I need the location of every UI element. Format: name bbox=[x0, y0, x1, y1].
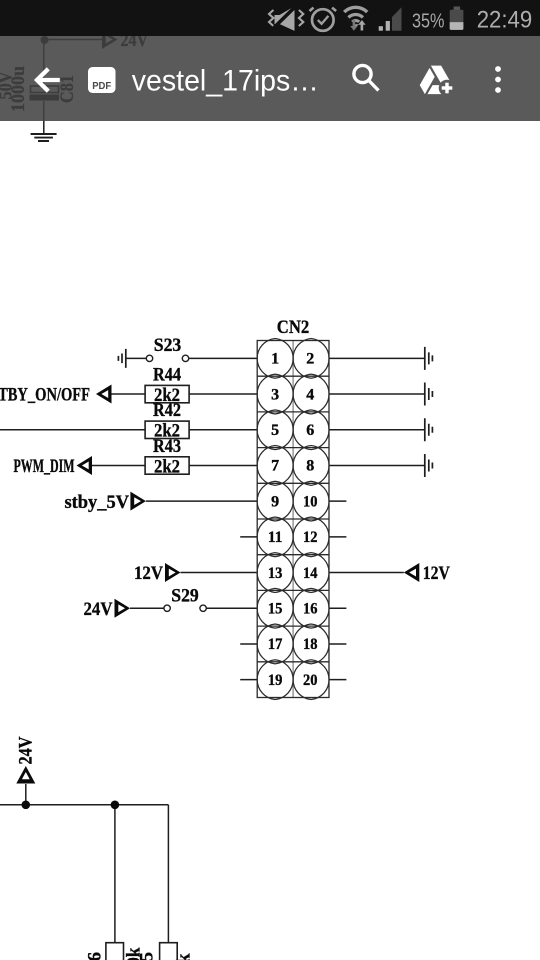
svg-text:13: 13 bbox=[268, 565, 283, 582]
svg-text:3: 3 bbox=[271, 386, 279, 403]
svg-text:S29: S29 bbox=[171, 585, 199, 606]
svg-text:R43: R43 bbox=[153, 436, 181, 457]
svg-text:14: 14 bbox=[303, 565, 318, 582]
svg-text:17: 17 bbox=[268, 636, 283, 653]
svg-text:2k2: 2k2 bbox=[154, 456, 180, 477]
svg-text:R44: R44 bbox=[153, 365, 181, 386]
svg-text:PWM_DIM: PWM_DIM bbox=[14, 456, 75, 477]
svg-text:16: 16 bbox=[303, 600, 318, 617]
svg-text:stby_5V: stby_5V bbox=[65, 492, 130, 513]
svg-text:18: 18 bbox=[303, 636, 318, 653]
svg-text:15: 15 bbox=[268, 600, 283, 617]
svg-text:12V: 12V bbox=[423, 563, 450, 584]
svg-text:R42: R42 bbox=[153, 400, 181, 421]
svg-text:2: 2 bbox=[306, 351, 314, 368]
svg-text:7: 7 bbox=[271, 458, 279, 475]
svg-text:S23: S23 bbox=[154, 335, 182, 356]
svg-text:vestel_17ips…: vestel_17ips… bbox=[132, 64, 319, 97]
svg-text:12: 12 bbox=[303, 529, 318, 546]
svg-text:6: 6 bbox=[306, 422, 314, 439]
svg-text:5: 5 bbox=[271, 422, 279, 439]
svg-text:35%: 35% bbox=[412, 10, 445, 32]
svg-text:CN2: CN2 bbox=[277, 317, 310, 338]
svg-text:4: 4 bbox=[306, 386, 314, 403]
svg-text:1: 1 bbox=[271, 351, 279, 368]
svg-text:11: 11 bbox=[268, 529, 283, 546]
svg-text:8: 8 bbox=[306, 458, 314, 475]
svg-text:12V: 12V bbox=[134, 563, 163, 584]
svg-text:24V: 24V bbox=[16, 736, 37, 764]
svg-text:5: 5 bbox=[136, 952, 157, 960]
svg-text:10: 10 bbox=[303, 493, 318, 510]
svg-text:k: k bbox=[173, 953, 194, 960]
svg-text:19: 19 bbox=[268, 672, 283, 689]
svg-text:22:49: 22:49 bbox=[477, 6, 533, 33]
svg-text:6: 6 bbox=[85, 952, 106, 960]
svg-text:9: 9 bbox=[271, 493, 279, 510]
svg-text:24V: 24V bbox=[84, 599, 113, 620]
svg-text:20: 20 bbox=[303, 672, 318, 689]
svg-text:PDF: PDF bbox=[92, 80, 112, 92]
svg-text:STBY_ON/OFF: STBY_ON/OFF bbox=[0, 385, 90, 406]
